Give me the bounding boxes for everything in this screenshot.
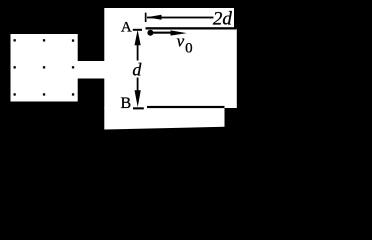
bottom boundary line (147, 106, 225, 108)
field dot r3c2 (43, 93, 45, 95)
d arrow down head (135, 90, 141, 107)
dimension 2d left tick (145, 13, 147, 22)
right region backdrop upper (104, 8, 237, 108)
right region backdrop lower (104, 107, 224, 130)
velocity arrow v0 shaft (150, 32, 172, 34)
particle dot (147, 30, 153, 36)
svg-text:B: B (121, 95, 132, 112)
d arrow stem lower (137, 78, 139, 92)
top boundary line (146, 27, 237, 29)
field dot r3c1 (14, 93, 16, 95)
svg-text:d: d (132, 59, 142, 79)
tick at B (133, 107, 144, 109)
magnetic field region (white square) (11, 34, 78, 102)
velocity arrow v0 head (171, 30, 187, 35)
field dot r3c3 (72, 93, 74, 95)
field dot r2c3 (72, 66, 74, 68)
d arrow stem upper (137, 43, 139, 61)
field dot r1c3 (72, 39, 74, 41)
field dot r2c2 (43, 66, 45, 68)
field dot r1c2 (43, 39, 45, 41)
dimension 2d arrowhead (points left) (147, 15, 162, 20)
d arrow up head (135, 30, 141, 45)
svg-text:2d: 2d (213, 8, 233, 29)
field dot r1c1 (14, 39, 16, 41)
svg-text:A: A (121, 20, 132, 36)
dimension 2d line (147, 17, 214, 19)
field dot r2c1 (14, 66, 16, 68)
connecting channel (76, 61, 105, 79)
tick at A (133, 29, 142, 31)
